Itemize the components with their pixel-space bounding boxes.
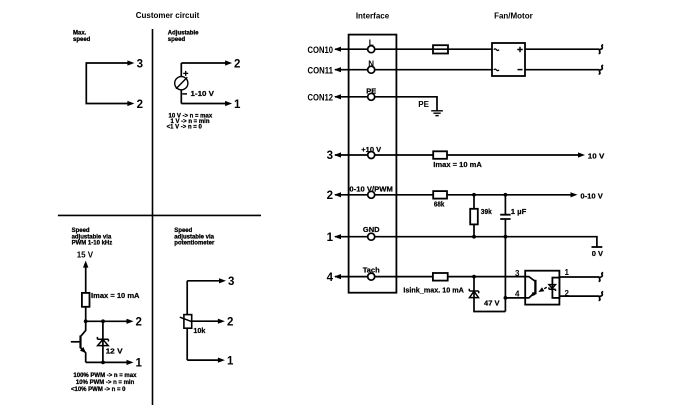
junction dot	[472, 275, 476, 279]
phototransistor	[534, 280, 536, 295]
wire to node 3	[187, 280, 220, 282]
svg-text:CON11: CON11	[308, 65, 334, 75]
svg-text:1: 1	[234, 99, 241, 111]
wire node1 line	[86, 361, 128, 363]
svg-text:15 V: 15 V	[77, 251, 94, 260]
terminal N	[368, 66, 375, 73]
wire opto pin4	[505, 297, 525, 299]
svg-text:68k: 68k	[434, 200, 445, 209]
node 2 arrow	[225, 60, 232, 65]
LED symbol	[549, 285, 556, 289]
divider horizontal customer-circuit	[58, 214, 261, 216]
junction dot	[504, 296, 508, 300]
wire L line left	[335, 48, 367, 50]
wire PE to ground	[375, 97, 437, 111]
svg-text:1: 1	[565, 268, 570, 277]
svg-text:CON10: CON10	[308, 45, 334, 55]
node 2 arrow	[127, 101, 134, 106]
wire node2 line	[86, 320, 128, 322]
wire 15V to resistor	[85, 267, 87, 293]
junction dot	[504, 235, 508, 239]
break symbol	[599, 65, 604, 74]
svg-text:2: 2	[137, 99, 143, 111]
node 0-10V arrow	[571, 192, 578, 197]
terminal 0-10V/PWM	[368, 191, 375, 198]
node 15V arrow up	[83, 261, 88, 268]
wire N line right	[375, 69, 492, 71]
wire to node 1	[181, 103, 226, 105]
svg-text:3: 3	[327, 150, 333, 162]
svg-text:10k: 10k	[193, 326, 206, 335]
svg-text:1-10 V: 1-10 V	[191, 89, 215, 98]
terminal PE	[368, 93, 375, 100]
zener diode D1 12V	[102, 321, 104, 362]
junction dot	[472, 193, 476, 197]
wire to node 2	[181, 62, 226, 64]
wire potentiometer vertical	[186, 281, 188, 360]
optocoupler U1	[525, 271, 559, 305]
terminal L	[368, 46, 375, 53]
wire +10V line left	[335, 154, 367, 156]
svg-text:1: 1	[227, 355, 234, 367]
wire opto pin1 out	[559, 276, 599, 278]
svg-text:2: 2	[234, 59, 240, 71]
break symbol	[599, 273, 604, 282]
terminal Tach	[368, 273, 375, 280]
node 1 arrow	[225, 101, 232, 106]
node 1 arrow	[127, 360, 134, 365]
wire opto pin2 out	[559, 295, 599, 297]
resistor R imax	[82, 293, 90, 307]
ground 0V	[592, 246, 603, 248]
svg-text:4: 4	[515, 289, 520, 298]
junction dot	[101, 319, 105, 323]
transistor Q1	[79, 336, 81, 349]
svg-text:GND: GND	[363, 225, 380, 234]
rectifier bridge	[492, 43, 525, 76]
wire wiper to node 2	[191, 320, 219, 322]
terminal GND	[368, 233, 375, 240]
svg-text:PE: PE	[418, 100, 429, 109]
node 2 arrow	[127, 319, 134, 324]
svg-text:2: 2	[227, 316, 233, 328]
svg-text:N: N	[368, 59, 374, 68]
zener diode D2 47V	[474, 277, 505, 312]
opto LED box	[552, 278, 559, 298]
wire max-speed bracket	[86, 63, 128, 104]
capacitor C1 1uF	[504, 195, 506, 215]
wire L line right	[375, 48, 492, 50]
svg-text:3: 3	[228, 276, 234, 288]
svg-text:39k: 39k	[481, 207, 493, 216]
node 10V arrow	[578, 152, 585, 157]
light coupling arrow	[543, 287, 547, 290]
wire resistor to node2 line	[81, 307, 86, 337]
resistor R isink	[433, 273, 448, 281]
minus sign	[182, 93, 187, 95]
wire PE line left	[335, 96, 367, 98]
svg-text:Customer circuit: Customer circuit	[136, 11, 200, 20]
wire N line left	[335, 69, 367, 71]
resistor R 68k	[433, 191, 447, 199]
svg-text:0-10 V: 0-10 V	[580, 191, 603, 200]
node 3 arrow	[127, 60, 134, 65]
wire N out	[525, 69, 600, 71]
svg-text:2: 2	[136, 317, 142, 329]
resistor R imax	[433, 151, 447, 159]
svg-text:1: 1	[327, 232, 334, 244]
junction dot	[101, 361, 105, 365]
svg-text:Isink_max. 10 mA: Isink_max. 10 mA	[403, 285, 464, 294]
junction dot	[504, 193, 508, 197]
svg-text:L: L	[369, 39, 374, 48]
wire to node 1	[187, 359, 219, 361]
svg-text:Fan/Motor: Fan/Motor	[494, 12, 533, 21]
break symbol	[599, 45, 604, 54]
wire Tach line left	[335, 276, 367, 278]
wire Tach line right	[375, 276, 525, 278]
fuse F1	[433, 45, 448, 53]
wire 0-10V line left	[335, 194, 367, 196]
svg-text:4: 4	[327, 272, 334, 284]
resistor R 39k	[473, 195, 475, 237]
svg-text:2: 2	[327, 190, 333, 202]
svg-text:3: 3	[515, 269, 520, 278]
wire +10V line right	[375, 154, 579, 156]
terminal +10V	[368, 152, 375, 159]
svg-text:CON12: CON12	[308, 92, 334, 102]
svg-text:0 V: 0 V	[592, 249, 603, 258]
wire GND line left	[335, 236, 367, 238]
junction dot	[84, 319, 88, 323]
wire GND line right	[375, 237, 597, 247]
svg-text:1 µF: 1 µF	[511, 207, 527, 216]
svg-text:Imax = 10 mA: Imax = 10 mA	[91, 291, 140, 300]
svg-text:10 V: 10 V	[588, 151, 605, 160]
svg-text:PE: PE	[366, 86, 376, 95]
svg-text:3: 3	[137, 59, 143, 71]
svg-text:Imax = 10 mA: Imax = 10 mA	[433, 160, 482, 169]
ground earth symbol	[431, 111, 443, 116]
svg-text:Interface: Interface	[356, 12, 390, 21]
svg-text:+10 V: +10 V	[361, 145, 381, 154]
wire source vertical	[180, 63, 182, 104]
divider vertical customer-circuit	[152, 29, 154, 405]
svg-text:47 V: 47 V	[484, 299, 500, 308]
potentiometer P1 10k	[184, 315, 192, 329]
junction dot	[472, 235, 476, 239]
wire L out	[525, 48, 600, 50]
plus sign	[183, 71, 188, 76]
svg-text:1: 1	[136, 358, 143, 370]
svg-text:12 V: 12 V	[106, 346, 123, 355]
voltage source V1 1-10V	[175, 77, 188, 90]
wire 0-10V line right	[375, 194, 571, 196]
svg-text:0-10 V/PWM: 0-10 V/PWM	[349, 185, 393, 194]
interface box	[349, 35, 397, 293]
svg-text:Tach: Tach	[363, 266, 380, 275]
break symbol	[599, 292, 604, 301]
